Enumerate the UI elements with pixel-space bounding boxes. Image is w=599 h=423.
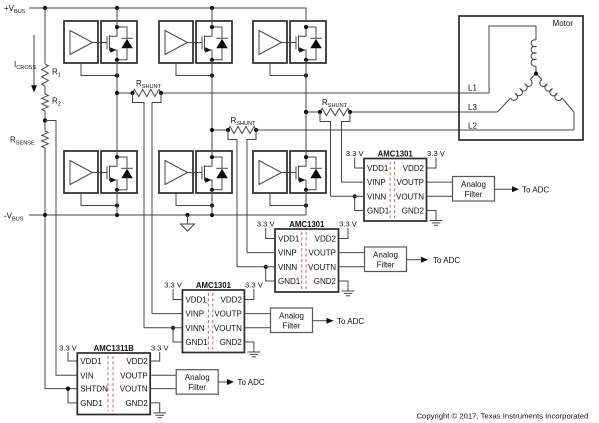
wire phase 3 low-side source to -VBUS: [305, 190, 307, 215]
arrowhead to ADC (AMC1301): [327, 318, 334, 324]
gate driver (phase 1 low side): [64, 151, 98, 193]
wire 3.3V to VDD1 (AMC1301): [266, 228, 275, 239]
svg-text:VINP: VINP: [367, 178, 386, 187]
svg-text:3.3 V: 3.3 V: [257, 220, 276, 229]
svg-text:AMC1301: AMC1301: [196, 281, 232, 290]
wire VOUTP to filter (AMC1301): [427, 181, 453, 183]
wire phase 1 shunt to low-side drain: [116, 93, 118, 157]
junction phase 1 / RSHUNT: [115, 91, 119, 95]
junction RSHUNT left (phase 3): [318, 110, 322, 114]
wire R2 to RSENSE: [44, 111, 46, 131]
analog filter box (AMC1301): [453, 177, 495, 202]
wire -VBUS to AMC1311B SHTDN: [45, 215, 77, 389]
NMOS transistor with body diode (phase 3 high side): [290, 21, 326, 63]
junction -VBUS / resistor chain: [43, 213, 47, 217]
svg-text:VDD2: VDD2: [126, 357, 148, 366]
wire VINP sense (AMC1301 middle): [247, 252, 275, 254]
wire 3.3V to VDD1 (AMC1301): [173, 289, 182, 300]
junction -VBUS / phase 1: [115, 213, 119, 217]
isolated amplifier AMC1301: [275, 229, 339, 292]
wire GND1 tie (AMC1311B): [68, 389, 77, 403]
junction (phase 3 low side driver return): [304, 203, 308, 207]
svg-text:AMC1301: AMC1301: [289, 220, 325, 229]
isolation barrier (AMC1311B): [108, 356, 113, 412]
isolated amplifier AMC1301: [364, 159, 427, 222]
NMOS transistor with body diode (phase 2 high side): [196, 21, 232, 63]
wire 3.3V to VDD1 (AMC1311B): [68, 352, 77, 361]
svg-text:Analog: Analog: [461, 180, 486, 189]
svg-text:To ADC: To ADC: [238, 378, 265, 387]
wire L3 coil to star point: [530, 74, 536, 80]
NMOS transistor with body diode (phase 1 high side): [101, 21, 137, 63]
junction GND1/VINN (AMC1301): [171, 326, 175, 330]
shunt resistor RSHUNT (phase 3): [320, 108, 350, 115]
wire filter to ADC (AMC1301): [313, 320, 328, 322]
junction RSHUNT right (phase 1): [159, 91, 163, 95]
wire L2 coil to star point: [536, 74, 542, 80]
wire phase 3 high-side source to shunt: [305, 60, 307, 112]
svg-text:Analog: Analog: [279, 312, 304, 321]
svg-text:AMC1311B: AMC1311B: [94, 344, 135, 353]
junction SHTDN/GND1 (AMC1311B): [66, 387, 70, 391]
gate driver (phase 3 low side): [253, 151, 287, 193]
svg-text:VOUTN: VOUTN: [120, 385, 148, 394]
svg-text:VOUTP: VOUTP: [396, 178, 424, 187]
junction +VBUS / phase 1: [115, 6, 119, 10]
wire filter to ADC (AMC1301): [495, 188, 513, 190]
wire driver return (phase 1 low side): [81, 193, 117, 206]
wire driver return (phase 3 low side): [270, 193, 306, 206]
resistor R1: [42, 64, 49, 86]
NMOS transistor with body diode (phase 3 low side): [290, 151, 326, 193]
wire VOUTN to filter (AMC1301): [244, 327, 270, 329]
svg-text:Analog: Analog: [185, 373, 210, 382]
wire phase 2 low-side source to -VBUS: [211, 190, 213, 215]
junction (phase 1 low side driver return): [115, 203, 119, 207]
current arrow ICROSS: [31, 35, 37, 93]
svg-text:VINN: VINN: [367, 192, 386, 201]
arrowhead to ADC (AMC1301): [512, 186, 519, 192]
wire phase 3 shunt to low-side drain: [305, 112, 307, 157]
wire VINN sense (AMC1301 top): [331, 195, 365, 197]
svg-text:To ADC: To ADC: [433, 256, 460, 265]
wire gate drive (phase 3 low side): [282, 172, 297, 174]
wire driver return (phase 3 high side): [270, 63, 306, 76]
junction +VBUS / phase 2: [210, 6, 214, 10]
wire filter to ADC (AMC1311B): [218, 381, 227, 383]
svg-text:GND2: GND2: [314, 277, 337, 286]
motor winding coil L3: [511, 80, 533, 101]
svg-text:GND1: GND1: [80, 399, 103, 408]
wire RSHUNT left sense (phase 1): [133, 93, 145, 328]
+VBUS rail: [29, 8, 306, 21]
shunt resistor RSHUNT (phase 1): [133, 89, 162, 96]
isolated amplifier AMC1311B: [77, 353, 150, 415]
wire gate drive (phase 2 high side): [188, 42, 203, 44]
junction GND1/VINN (AMC1301): [353, 194, 357, 198]
wire VOUTP to filter (AMC1311B): [150, 374, 176, 376]
svg-text:VDD1: VDD1: [80, 357, 102, 366]
arrowhead to ADC (AMC1301): [421, 257, 428, 263]
svg-text:Filter: Filter: [283, 322, 301, 331]
ground symbol GND2 (AMC1301): [430, 221, 443, 226]
wire RSHUNT left sense (phase 3): [320, 112, 331, 196]
wire GND1 tie (AMC1301): [355, 196, 364, 210]
ground symbol GND2 (AMC1311B): [153, 413, 166, 418]
wire L1 coil to star point: [535, 66, 537, 74]
wire 3.3V to VDD2 (AMC1301): [244, 289, 254, 300]
junction RSHUNT right (phase 2): [254, 128, 258, 132]
junction (phase 2 high side driver return): [210, 73, 214, 77]
analog filter box (AMC1301): [365, 247, 407, 272]
svg-text:Analog: Analog: [373, 251, 398, 260]
NMOS transistor with body diode (phase 2 low side): [196, 151, 232, 193]
svg-text:Filter: Filter: [188, 383, 206, 392]
wire GND2 (AMC1301): [339, 281, 349, 291]
svg-text:VOUTN: VOUTN: [308, 263, 336, 272]
svg-text:Filter: Filter: [465, 190, 483, 199]
svg-text:VOUTN: VOUTN: [396, 192, 424, 201]
wire L3 lead (diagonal): [498, 98, 511, 112]
wire +VBUS to R1: [44, 8, 46, 64]
gate driver (phase 1 high side): [64, 21, 98, 63]
analog filter box (AMC1311B): [176, 370, 218, 395]
arrowhead to ADC (AMC1311B): [227, 379, 234, 385]
node divider tap: [43, 118, 47, 122]
wire driver return (phase 2 low side): [176, 193, 212, 206]
svg-text:VDD1: VDD1: [367, 164, 389, 173]
resistor RSENSE: [42, 131, 49, 148]
wire gate drive (phase 1 low side): [93, 172, 108, 174]
shunt resistor RSHUNT (phase 2): [228, 126, 256, 133]
motor winding coil L2: [540, 80, 562, 101]
wire phase 2 shunt to low-side drain: [211, 130, 213, 157]
wire RSHUNT right sense (phase 3): [342, 112, 351, 182]
wire RSENSE to -VBUS: [44, 148, 46, 215]
wire GND2 (AMC1301): [427, 211, 437, 221]
wire VOUTN to filter (AMC1301): [427, 195, 453, 197]
wire driver return (phase 1 high side): [81, 63, 117, 76]
svg-text:SHTDN: SHTDN: [80, 385, 108, 394]
wire divider tap to AMC1311B VIN: [45, 121, 77, 376]
svg-text:3.3 V: 3.3 V: [151, 344, 170, 353]
svg-text:VDD2: VDD2: [315, 235, 337, 244]
resistor R2: [42, 94, 49, 111]
wire RSHUNT to motor (phase 2): [256, 129, 574, 131]
junction (phase 2 low side driver return): [210, 203, 214, 207]
gate driver (phase 3 high side): [253, 21, 287, 63]
wire phase 2 high-side drain: [211, 8, 213, 27]
svg-text:GND1: GND1: [185, 338, 208, 347]
junction RSHUNT left (phase 2): [226, 128, 230, 132]
wire R1 to R2: [44, 86, 46, 94]
svg-text:VDD2: VDD2: [403, 164, 425, 173]
svg-text:VDD2: VDD2: [221, 296, 243, 305]
svg-text:VIN: VIN: [80, 371, 94, 380]
svg-text:To ADC: To ADC: [522, 185, 549, 194]
wire gate drive (phase 2 low side): [188, 172, 203, 174]
junction phase 3 / RSHUNT: [304, 110, 308, 114]
wire phase 2 to RSHUNT: [212, 129, 228, 131]
svg-text:To ADC: To ADC: [337, 317, 364, 326]
wire GND1 tie (AMC1301): [266, 267, 275, 281]
wire 3.3V to VDD1 (AMC1301): [355, 158, 364, 169]
svg-text:VINN: VINN: [278, 263, 297, 272]
svg-text:L3: L3: [468, 103, 477, 112]
junction (phase 1 high side driver return): [115, 73, 119, 77]
-VBUS rail: [29, 214, 306, 216]
wire VINP sense (AMC1301 bottom): [152, 313, 182, 315]
junction GND1/VINN (AMC1301): [264, 265, 268, 269]
wire driver return (phase 2 high side): [176, 63, 212, 76]
wire phase 1 low-side source to -VBUS: [116, 190, 118, 215]
wire VINN sense (AMC1301 bottom): [144, 327, 182, 329]
svg-text:VINP: VINP: [185, 310, 204, 319]
svg-text:3.3 V: 3.3 V: [164, 281, 183, 290]
motor box: [459, 16, 583, 140]
svg-text:3.3 V: 3.3 V: [427, 149, 446, 158]
junction GND1/SHTDN (AMC1311B): [66, 387, 70, 391]
svg-text:VDD1: VDD1: [278, 235, 300, 244]
svg-text:VINP: VINP: [278, 249, 297, 258]
wire GND2 (AMC1301): [244, 342, 254, 352]
junction RSHUNT right (phase 3): [348, 110, 352, 114]
svg-text:3.3 V: 3.3 V: [346, 149, 365, 158]
ground symbol (-VBUS reference): [181, 215, 195, 231]
motor winding coil L1: [531, 40, 536, 67]
gate driver (phase 2 high side): [159, 21, 193, 63]
wire gate drive (phase 1 high side): [93, 42, 108, 44]
wire L2 lead: [562, 98, 574, 130]
star point junction: [534, 71, 538, 75]
svg-text:VOUTP: VOUTP: [120, 371, 148, 380]
svg-text:Filter: Filter: [377, 261, 395, 270]
isolated amplifier AMC1301: [182, 290, 244, 353]
svg-text:GND1: GND1: [367, 207, 390, 216]
isolation barrier (AMC1301): [390, 162, 394, 219]
junction +VBUS / resistor chain: [43, 6, 47, 10]
wire filter to ADC (AMC1301): [407, 259, 422, 261]
wire VINP sense (AMC1301 top): [342, 181, 365, 183]
wire RSHUNT to motor (phase 3): [350, 111, 498, 113]
svg-text:L1: L1: [468, 84, 477, 93]
wire RSHUNT left sense (phase 2): [228, 130, 237, 267]
NMOS transistor with body diode (phase 1 low side): [101, 151, 137, 193]
svg-text:VOUTP: VOUTP: [308, 249, 336, 258]
svg-text:GND2: GND2: [220, 338, 243, 347]
junction -VBUS / phase 2: [210, 213, 214, 217]
svg-text:GND2: GND2: [125, 399, 148, 408]
wire VOUTP to filter (AMC1301): [339, 252, 365, 254]
svg-text:VOUTN: VOUTN: [214, 324, 242, 333]
wire RSHUNT to motor (phase 1): [161, 92, 489, 94]
svg-text:AMC1301: AMC1301: [378, 150, 414, 159]
wire phase 1 high-side drain: [116, 8, 118, 27]
wire phase 1 to RSHUNT: [117, 92, 133, 94]
svg-text:VINN: VINN: [185, 324, 204, 333]
svg-text:VOUTP: VOUTP: [214, 310, 242, 319]
svg-text:3.3 V: 3.3 V: [245, 281, 264, 290]
wire 3.3V to VDD2 (AMC1301): [427, 158, 437, 169]
isolation barrier (AMC1301): [302, 232, 306, 289]
junction phase 2 / RSHUNT: [210, 128, 214, 132]
wire phase 1 high-side source to shunt: [116, 60, 118, 93]
gate driver (phase 2 low side): [159, 151, 193, 193]
ground symbol GND2 (AMC1301): [342, 291, 355, 296]
svg-text:Motor: Motor: [553, 19, 574, 28]
wire RSHUNT right sense (phase 2): [247, 130, 256, 253]
wire gate drive (phase 3 high side): [282, 42, 297, 44]
wire GND1 tie (AMC1301): [173, 328, 182, 342]
svg-text:L2: L2: [468, 122, 477, 131]
wire VOUTP to filter (AMC1301): [244, 313, 270, 315]
junction -VBUS / ground: [185, 213, 189, 217]
wire VOUTN to filter (AMC1301): [339, 266, 365, 268]
svg-text:3.3 V: 3.3 V: [59, 344, 78, 353]
ground symbol GND2 (AMC1301): [247, 352, 260, 357]
wire VINN sense (AMC1301 middle): [237, 266, 275, 268]
svg-text:3.3 V: 3.3 V: [339, 220, 358, 229]
junction (phase 3 high side driver return): [304, 73, 308, 77]
wire 3.3V to VDD2 (AMC1311B): [150, 352, 160, 361]
analog filter box (AMC1301): [271, 308, 313, 333]
wire L1 lead: [489, 26, 536, 93]
wire 3.3V to VDD2 (AMC1301): [339, 228, 349, 239]
wire phase 2 high-side source to shunt: [211, 60, 213, 130]
wire GND2 (AMC1311B): [150, 403, 160, 413]
wire RSHUNT right sense (phase 1): [152, 93, 161, 314]
svg-text:GND2: GND2: [402, 207, 425, 216]
wire VOUTN to filter (AMC1311B): [150, 388, 176, 390]
junction RSHUNT left (phase 1): [130, 91, 134, 95]
wire phase 3 to RSHUNT: [306, 111, 320, 113]
isolation barrier (AMC1301): [208, 293, 212, 350]
svg-text:VDD1: VDD1: [185, 296, 207, 305]
svg-text:Copyright © 2017, Texas Instru: Copyright © 2017, Texas Instruments Inco…: [417, 411, 589, 420]
svg-text:GND1: GND1: [278, 277, 301, 286]
